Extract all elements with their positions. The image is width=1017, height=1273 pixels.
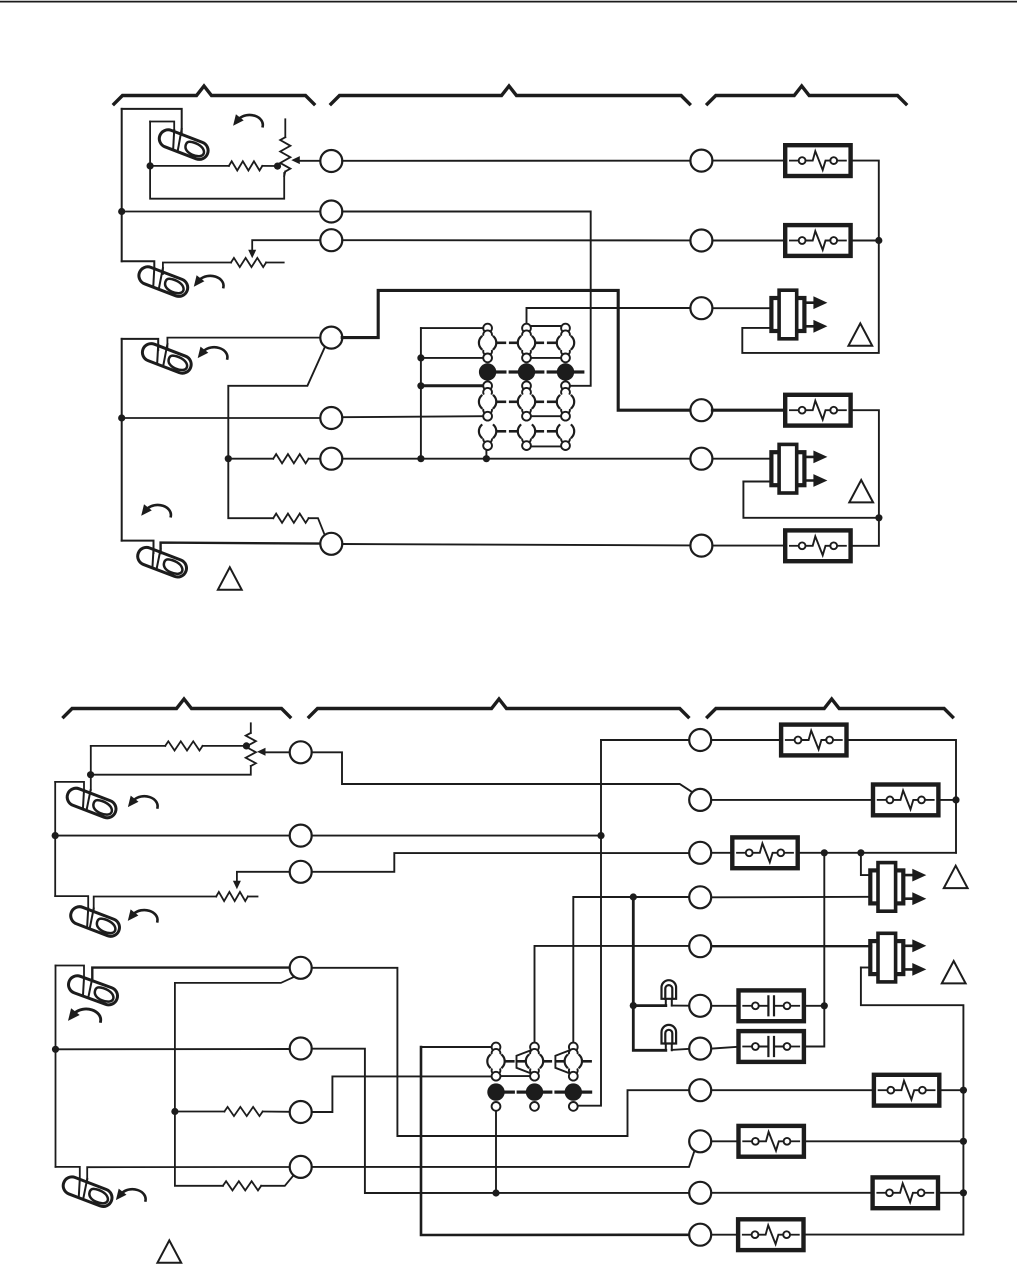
wire resistor to pot tap <box>262 165 277 167</box>
terminal P6 bottom <box>689 995 711 1017</box>
wire T5 left <box>122 417 321 419</box>
terminal P11 bottom <box>689 1224 711 1246</box>
resistor heat anticipator <box>231 258 266 267</box>
resistor fixed setpoint bottom <box>165 741 202 750</box>
wire col1-col2 mid <box>496 1075 530 1077</box>
wire to resistor T6 <box>228 458 273 460</box>
resistor heat anticipator bottom <box>216 892 248 901</box>
wire pot top lead <box>284 119 286 137</box>
terminal P1 bottom <box>689 729 711 751</box>
terminal X top <box>320 533 342 555</box>
wire col2 top to R3 <box>527 308 691 324</box>
wire lamp1 to P6 <box>672 1005 689 1007</box>
wire bulb1 inner lead <box>150 122 174 137</box>
rotation arrow bulb5 <box>128 796 158 808</box>
junction lamp rail top <box>630 893 637 900</box>
wire rail to col1 top <box>421 327 488 329</box>
wire col1 top left <box>421 1046 491 1048</box>
rotation arrow bulb2 <box>194 275 224 287</box>
electrode bulb8 b <box>83 1179 87 1199</box>
terminal L7 bottom <box>290 1156 312 1178</box>
electrode bulb4 a <box>153 549 154 567</box>
wire T4 to bulb3 <box>167 338 320 349</box>
rotation arrow bulb8 <box>116 1189 146 1201</box>
junction pot tap <box>274 163 281 170</box>
note triangle transformer2 <box>849 480 873 502</box>
brace thermostat section bottom <box>64 699 290 717</box>
note triangle transformer1 <box>848 323 872 345</box>
rotation arrow bulb3 <box>198 347 228 359</box>
indicator lamp 1 <box>662 980 677 1005</box>
wire L7 to P9 <box>312 1150 695 1167</box>
wire P3 to relay b3 <box>712 852 733 854</box>
wire P1 vertical to col3 bottom <box>578 740 601 1106</box>
terminal R2 top-diagram <box>690 230 712 252</box>
terminal L6 bottom <box>290 1101 312 1123</box>
potentiometer heat setpoint <box>280 137 290 171</box>
terminal W top <box>320 150 342 172</box>
relay fan <box>785 395 850 426</box>
wire rail to col1 mid-lower thick <box>421 384 483 387</box>
wire col1 bottom stem <box>495 1111 497 1193</box>
wire L1 to wiper bottom <box>265 751 290 753</box>
wire T2 to switch col3 <box>342 212 591 386</box>
wire to bulb5 electrode <box>90 746 92 790</box>
terminal P4 bottom <box>689 886 711 908</box>
wire pot bottom lead <box>284 172 285 177</box>
wire P9 to relay b9 <box>712 1140 739 1142</box>
electrode bulb2 b <box>159 268 163 289</box>
wire T7 to R6 <box>342 544 690 545</box>
wire col3 top to P4 <box>573 897 688 1042</box>
terminal L5 bottom <box>290 1038 312 1060</box>
note triangle thermostat <box>218 567 242 589</box>
terminal P10 bottom <box>689 1182 711 1204</box>
mercury switch bulb 1 <box>157 127 211 162</box>
wire L1 to P2 <box>312 752 692 792</box>
junction rail L5 <box>52 1046 59 1053</box>
note triangle thermostat bottom <box>157 1240 181 1262</box>
mercury switch bulb 2 <box>136 264 190 299</box>
wire bulb4 to T7 <box>161 543 321 553</box>
resistor cool anticipator <box>273 514 308 523</box>
wire T3 to R2 <box>342 239 690 241</box>
mercury switch bulb 3 <box>140 341 194 376</box>
wiper arrow pot bottom <box>257 748 266 756</box>
wire rail to bulb8 <box>56 1167 80 1181</box>
switch wiper row y401 <box>479 394 574 410</box>
resistor fixed T6 <box>273 454 308 463</box>
junction branch transformer b1 <box>857 849 864 856</box>
junction col1 bottom stem <box>492 1189 499 1196</box>
relay b11 <box>738 1219 803 1250</box>
wire anticipator stub bottom <box>248 896 258 898</box>
terminal L1 bottom <box>290 741 312 763</box>
transformer b cooling <box>870 934 926 982</box>
electrode bulb3 a <box>157 345 158 363</box>
wire rail to col1 mid-upper <box>421 357 483 359</box>
electrode bulb4 b <box>157 549 161 569</box>
wire pot bottom loop <box>150 122 284 199</box>
switch column 3 contacts <box>561 324 570 450</box>
brace thermostat section <box>114 86 314 104</box>
wiper arrow anticipator bottom <box>233 881 241 890</box>
brace wiring section <box>331 86 690 104</box>
electrode bulb3 b <box>163 344 167 365</box>
junction pot loop / resistor <box>147 162 154 169</box>
wire relay b9 out <box>804 1140 964 1142</box>
wire relay b1 rail <box>846 740 956 853</box>
resistor R-fixed <box>229 161 262 170</box>
terminal P5 bottom <box>689 935 711 957</box>
wire L3 to anticipator bottom <box>237 872 290 881</box>
wire bulb8 to L7 <box>87 1167 290 1180</box>
resistor fixed L6 bottom <box>224 1107 262 1116</box>
wire relay2 out <box>851 240 879 242</box>
wire P8 to relay b8 <box>712 1089 874 1091</box>
wire relay b2 out <box>938 799 956 801</box>
wire rail to bulb5 <box>55 782 84 797</box>
terminal R4 top-diagram <box>690 399 712 421</box>
wire col2-col3 lower <box>531 415 561 417</box>
terminal O top <box>320 407 342 429</box>
wire P6 to contactor1 <box>712 1005 739 1007</box>
switch column 1 bottom <box>492 1043 501 1111</box>
electrode bulb2 a <box>153 268 154 286</box>
wire to resistor L6 <box>175 1111 225 1113</box>
wire P1 to relay b1 <box>712 739 782 741</box>
rotation arrow bulb7 <box>68 1008 101 1021</box>
potentiometer setpoint bottom <box>246 733 256 766</box>
wire relay1 to transformer loop <box>742 161 879 353</box>
wire L6 to col1 mid <box>312 1076 492 1112</box>
wire anticipator to L7 bottom <box>261 1175 294 1186</box>
wire col3 bypass chevron <box>555 1050 569 1073</box>
wire resistor lead bottom <box>91 745 165 747</box>
contactor 2 <box>739 1031 804 1062</box>
terminal Y top <box>320 201 342 223</box>
electrode bulb6 a <box>87 909 88 927</box>
switch column 2 bottom <box>530 1043 539 1111</box>
relay b9 <box>739 1126 804 1157</box>
wire col2-col3 bottom <box>531 445 561 447</box>
terminal L4 bottom <box>290 957 312 979</box>
wire L5 to P10 <box>312 1049 689 1193</box>
wire pot loop bottom <box>91 766 251 775</box>
switch wiper row y342 <box>479 335 574 351</box>
wire col1 bottom stem <box>485 450 487 459</box>
junction rail b10 <box>960 1189 967 1196</box>
wire to lamp1 <box>633 1004 666 1007</box>
wire bulb6 to anticipator <box>94 897 217 912</box>
page top border rule <box>0 1 1017 3</box>
wire R4 to relay3 thick <box>712 409 785 412</box>
electrode bulb5 a <box>83 790 84 808</box>
wire L2 left <box>55 835 290 837</box>
junction branch contactor rail <box>821 849 828 856</box>
terminal L2 bottom <box>290 825 312 847</box>
electrode bulb5 b <box>87 790 91 810</box>
wire transformer b2 lower lead <box>861 967 871 969</box>
wire L5 left <box>56 1048 290 1050</box>
wire P10 to relay b10 <box>712 1192 873 1194</box>
mercury switch bulb 5 <box>65 786 119 821</box>
junction pot tap bottom <box>243 742 250 749</box>
wire left rail upper <box>121 109 123 261</box>
wire col2-col3 upper <box>531 357 561 359</box>
brace equipment section bottom <box>707 699 952 717</box>
wire P2 to relay b2 <box>712 799 874 801</box>
junction rail a <box>417 354 424 361</box>
wire bulb1 outer lead <box>122 109 182 133</box>
terminal P9 bottom <box>689 1130 711 1152</box>
wire L4 to P8 <box>312 968 689 1136</box>
wire pot top lead bottom <box>250 723 252 733</box>
relay heat 1 <box>785 145 850 176</box>
rotation arrow bulb6 <box>128 909 158 921</box>
terminal R5 top-diagram <box>690 448 712 470</box>
junction rail b9 <box>960 1138 967 1145</box>
wire col2 top to P5 <box>535 946 689 1043</box>
junction cool circuit <box>225 455 232 462</box>
wire relay b10 out <box>938 1192 964 1194</box>
junction rail L2 <box>52 832 59 839</box>
wire col2-col3 top <box>529 325 563 327</box>
wire anticipator to T7 <box>309 518 325 534</box>
wire vertical to P1 <box>601 739 689 741</box>
wire P4 to transformer b1 lower <box>712 896 871 899</box>
relay b3 <box>732 837 797 868</box>
wire T1 to wiper <box>300 160 321 162</box>
relay b10 <box>873 1177 938 1208</box>
terminal L3 bottom <box>290 861 312 883</box>
electrode bulb6 b <box>90 909 94 929</box>
wire R6 to relay4 <box>712 545 785 547</box>
wire contactor1 out <box>804 1005 824 1007</box>
junction rail T5 <box>118 414 125 421</box>
junction transformer2 loop <box>875 514 882 521</box>
wire L2 to vertical <box>312 835 601 837</box>
transformer b heating <box>870 863 926 911</box>
wire rail to bulb4 <box>122 541 154 553</box>
junction contactor rail <box>821 1002 828 1009</box>
relay b2 <box>873 785 938 816</box>
wire T3 to anticipator wiper <box>252 240 320 249</box>
electrode bulb8 a <box>79 1179 80 1197</box>
wire transformer b2 loop rail <box>803 968 963 1235</box>
wire R2 to relay2 <box>712 240 785 242</box>
wire transformer2 lower lead <box>743 481 771 483</box>
wire col2 bypass chevron <box>517 1050 532 1073</box>
junction relay b2 out <box>952 796 959 803</box>
terminal B top <box>320 448 342 470</box>
transformer cooling <box>771 445 827 493</box>
wire T4 branch to cool anticipator <box>228 346 325 518</box>
electrode bulb7 a <box>83 978 84 995</box>
wire anticipator stub <box>266 262 284 264</box>
relay b1 <box>781 725 846 756</box>
electrode bulb7 b <box>88 978 92 998</box>
wire R3 to transformer1 <box>712 307 771 309</box>
junction L2 vertical <box>597 832 604 839</box>
junction rail b8 <box>960 1087 967 1094</box>
wire R5 to transformer2 <box>712 458 771 460</box>
switch column 3 bottom <box>569 1043 578 1111</box>
contactor 1 <box>739 990 804 1021</box>
wire T2 left <box>122 211 321 213</box>
wire relay3 to relay4 rail <box>851 410 879 546</box>
wire P7 to contactor2 <box>712 1047 739 1049</box>
terminal P2 bottom <box>689 789 711 811</box>
brace equipment section <box>707 86 906 104</box>
junction relay2 output <box>875 237 882 244</box>
junction rail T2 <box>118 208 125 215</box>
rotation arrow bulb1 <box>233 114 263 126</box>
wire L4 branch to cool anticipator bottom <box>175 977 294 1186</box>
switch wiper row y431 <box>479 423 574 439</box>
wire relay b8 out <box>939 1089 963 1091</box>
wire rail to bulb2 <box>122 261 155 274</box>
junction pot loop bottom <box>87 771 94 778</box>
switch wiper row y372 <box>479 363 583 380</box>
wire bulb7 to L4 <box>92 968 289 979</box>
wire rail to bulb7 <box>56 966 85 982</box>
terminal R6 top-diagram <box>690 535 712 557</box>
wire transformer2 loop <box>743 482 879 518</box>
wire left rail bottom upper <box>54 782 56 896</box>
wire bulb2 to anticipator <box>163 263 231 275</box>
wire relay b3 out <box>798 852 957 854</box>
terminal G top <box>320 229 342 251</box>
terminal R1 top-diagram <box>690 150 712 172</box>
wire to resistor R-fixed <box>153 165 229 167</box>
wire to transformer b1 upper <box>861 853 871 875</box>
wire contactor rail <box>804 853 824 1047</box>
note triangle transformer b2 <box>942 961 966 983</box>
wire resistor to T6 <box>309 458 321 460</box>
terminal P8 bottom <box>689 1079 711 1101</box>
brace wiring section bottom <box>309 699 688 717</box>
wiper arrow pot <box>291 156 300 164</box>
wire T6 to R5 <box>342 458 690 460</box>
wiper arrow anticipator <box>248 250 256 259</box>
electrode bulb1 b <box>178 129 182 151</box>
relay b8 <box>874 1075 939 1106</box>
wire P5 to transformer b2 upper <box>712 945 871 947</box>
terminal P7 bottom <box>689 1038 711 1060</box>
relay heat 2 <box>785 225 850 256</box>
junction col1 bottom <box>483 455 490 462</box>
junction cool circuit bottom <box>171 1108 178 1115</box>
mercury switch bulb 7 <box>66 973 120 1007</box>
switch column 2 contacts <box>522 324 531 450</box>
mercury switch bulb 6 <box>68 904 122 939</box>
wire T4 to R4 thick <box>342 290 690 410</box>
junction lamp1 <box>630 1002 637 1009</box>
rotation arrow bulb4 <box>141 504 171 516</box>
relay cool <box>785 530 850 561</box>
wire resistor to L6 <box>263 1111 290 1113</box>
junction rail b <box>417 382 424 389</box>
wire L3 to P3 <box>312 853 689 872</box>
resistor cool anticipator bottom <box>223 1181 261 1190</box>
wire rail to bulb3 <box>122 339 159 350</box>
wire left rail lower <box>121 339 123 541</box>
switch wiper row bottom y1092 <box>487 1083 590 1100</box>
transformer heating <box>771 291 827 339</box>
terminal R top <box>320 327 342 349</box>
electrode bulb1 a <box>173 130 174 149</box>
junction switch rail bottom <box>417 455 424 462</box>
terminal R3 top-diagram <box>690 297 712 319</box>
mercury switch bulb 8 <box>61 1174 115 1209</box>
wire col1 top to P11 thick <box>421 1047 689 1235</box>
wire resistor to pot bottom <box>203 745 247 747</box>
wire rail to bulb6 <box>55 896 88 911</box>
switch column 1 contacts <box>483 324 492 450</box>
wire T5 to switch col1 <box>342 416 483 417</box>
switch wiper row bottom y1061 <box>487 1053 590 1069</box>
note triangle transformer b1 <box>944 866 968 888</box>
wire lamp rail <box>633 897 666 1050</box>
wire R1 to relay1 <box>712 160 785 162</box>
mercury switch bulb 4 <box>135 545 189 580</box>
terminal P3 bottom <box>689 842 711 864</box>
wire T1 to R1 <box>342 160 690 162</box>
wire switch left rail <box>420 328 422 459</box>
wire P11 to relay b11 <box>712 1234 739 1236</box>
wire lamp2 to P7 <box>672 1049 689 1050</box>
indicator lamp 2 <box>662 1025 677 1050</box>
wire left rail bottom lower <box>55 966 57 1167</box>
